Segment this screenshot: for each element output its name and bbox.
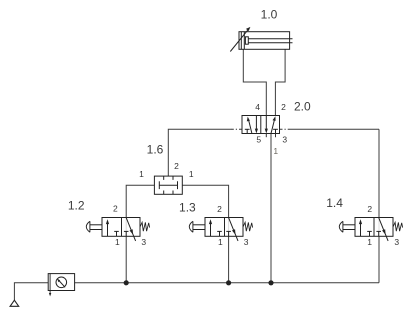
svg-text:3: 3 <box>282 135 287 145</box>
svg-text:3: 3 <box>244 237 249 247</box>
svg-text:2.0: 2.0 <box>294 100 311 114</box>
svg-text:3: 3 <box>394 237 399 247</box>
svg-text:2: 2 <box>217 204 222 214</box>
svg-text:1.6: 1.6 <box>147 142 164 156</box>
svg-text:1: 1 <box>189 169 194 179</box>
svg-text:1.2: 1.2 <box>68 198 85 212</box>
svg-text:3: 3 <box>141 237 146 247</box>
svg-text:2: 2 <box>281 102 286 112</box>
svg-text:1: 1 <box>139 169 144 179</box>
svg-text:1: 1 <box>115 237 120 247</box>
svg-text:2: 2 <box>174 161 179 171</box>
svg-text:2: 2 <box>113 204 118 214</box>
svg-text:1: 1 <box>273 146 278 156</box>
svg-text:1.0: 1.0 <box>261 8 278 22</box>
svg-text:4: 4 <box>255 102 260 112</box>
svg-text:2: 2 <box>367 204 372 214</box>
svg-text:5: 5 <box>256 135 261 145</box>
svg-text:1: 1 <box>218 237 223 247</box>
svg-text:1: 1 <box>367 237 372 247</box>
svg-text:1.4: 1.4 <box>326 196 343 210</box>
svg-text:1.3: 1.3 <box>179 200 196 214</box>
